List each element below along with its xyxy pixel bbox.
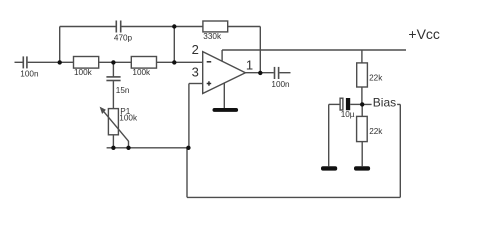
wire P1 wiper down — [128, 141, 130, 148]
svg-text:2: 2 — [192, 42, 199, 57]
node D junction dot — [172, 60, 176, 64]
wire node A up to top feedback rail — [59, 27, 61, 63]
wire top rail left segment — [60, 26, 116, 28]
wire feedback vertical down to output node — [259, 27, 261, 73]
wire node B to R3 — [174, 26, 203, 28]
node C junction dot — [111, 60, 115, 64]
wire C4 output stub — [279, 72, 290, 74]
wire op-amp output — [245, 72, 273, 74]
wiper junction dot — [126, 146, 130, 150]
wire Bias to right corner — [362, 103, 400, 105]
svg-text:100k: 100k — [119, 114, 138, 123]
wire P1 bottom terminal down — [112, 135, 114, 148]
resistor R1 100k — [74, 57, 99, 69]
svg-text:100n: 100n — [271, 80, 290, 89]
wire node D up to top rail node B — [173, 27, 175, 63]
wire pot bottom rail — [107, 147, 189, 149]
wire pin3 into op-amp — [189, 83, 203, 85]
wire C5 left leg down to ground — [328, 104, 330, 166]
op-amp minus sign — [207, 61, 212, 63]
wire lower-left vertical (rail corner up to pot rail) — [186, 148, 188, 198]
label Bias — [372, 96, 398, 110]
capacitor C2 470p — [116, 21, 120, 33]
wire R2 to node D — [157, 61, 203, 63]
op-amp U1 triangle — [203, 52, 246, 94]
svg-text:15n: 15n — [116, 86, 130, 95]
capacitor C5 10µ (polarized) — [340, 98, 362, 110]
wire 470p to node B (top) — [121, 26, 174, 28]
wire input stub — [15, 61, 23, 63]
wire R3 to feedback corner — [228, 26, 261, 28]
ground (op-amp) — [213, 108, 239, 112]
pot bottom junction dot — [111, 146, 115, 150]
wire node C down to C3 — [112, 62, 114, 76]
wire +Vcc rail — [222, 49, 406, 51]
wire right vertical down — [399, 104, 401, 197]
node A junction dot — [58, 60, 62, 64]
wire op-amp ground stub — [223, 83, 225, 108]
op-amp plus sign — [207, 81, 212, 85]
wire node Bias down to R5 — [361, 104, 363, 116]
resistor R2 100k — [131, 57, 156, 69]
svg-text:100k: 100k — [132, 68, 151, 77]
wire op-amp V+ stub to rail — [221, 50, 223, 61]
wire C3 to P1 top — [112, 81, 114, 109]
potentiometer P1 100k — [100, 107, 129, 142]
wire bottom rail — [187, 196, 400, 198]
capacitor C3 15n — [106, 77, 120, 81]
svg-text:100n: 100n — [20, 70, 39, 79]
node B junction dot (top rail) — [172, 24, 176, 28]
wire R1 to node C — [99, 61, 132, 63]
resistor R4 22k — [357, 63, 368, 87]
ground (R5) — [354, 166, 370, 170]
svg-text:1: 1 — [246, 58, 253, 73]
ground (C5) — [321, 166, 337, 170]
svg-text:22k: 22k — [369, 73, 383, 82]
svg-text:100k: 100k — [74, 68, 93, 77]
svg-text:Bias: Bias — [373, 96, 396, 110]
svg-text:+Vcc: +Vcc — [408, 26, 440, 42]
Bias node junction dot — [360, 102, 364, 106]
svg-text:3: 3 — [192, 65, 199, 80]
wire R5 to ground — [361, 142, 363, 167]
wire R4 to node Bias — [361, 87, 363, 104]
resistor R5 22k — [357, 116, 368, 141]
resistor R3 330k — [203, 21, 228, 32]
wire Vcc drop to R4 — [361, 50, 363, 63]
svg-text:330k: 330k — [203, 32, 222, 41]
rail corner junction dot — [186, 146, 190, 150]
wire node A to R1 — [60, 61, 74, 63]
capacitor C4 100n (output) — [275, 67, 279, 79]
capacitor C1 100n (input) — [23, 56, 27, 68]
wire node Bias to C5 — [329, 103, 340, 105]
svg-text:10µ: 10µ — [341, 110, 355, 119]
wire C1 to node A — [28, 61, 60, 63]
svg-text:22k: 22k — [369, 127, 383, 136]
svg-text:470p: 470p — [114, 33, 133, 42]
output node junction dot — [258, 71, 262, 75]
wire vertical from pot-rail node up to pin3 — [188, 84, 190, 148]
